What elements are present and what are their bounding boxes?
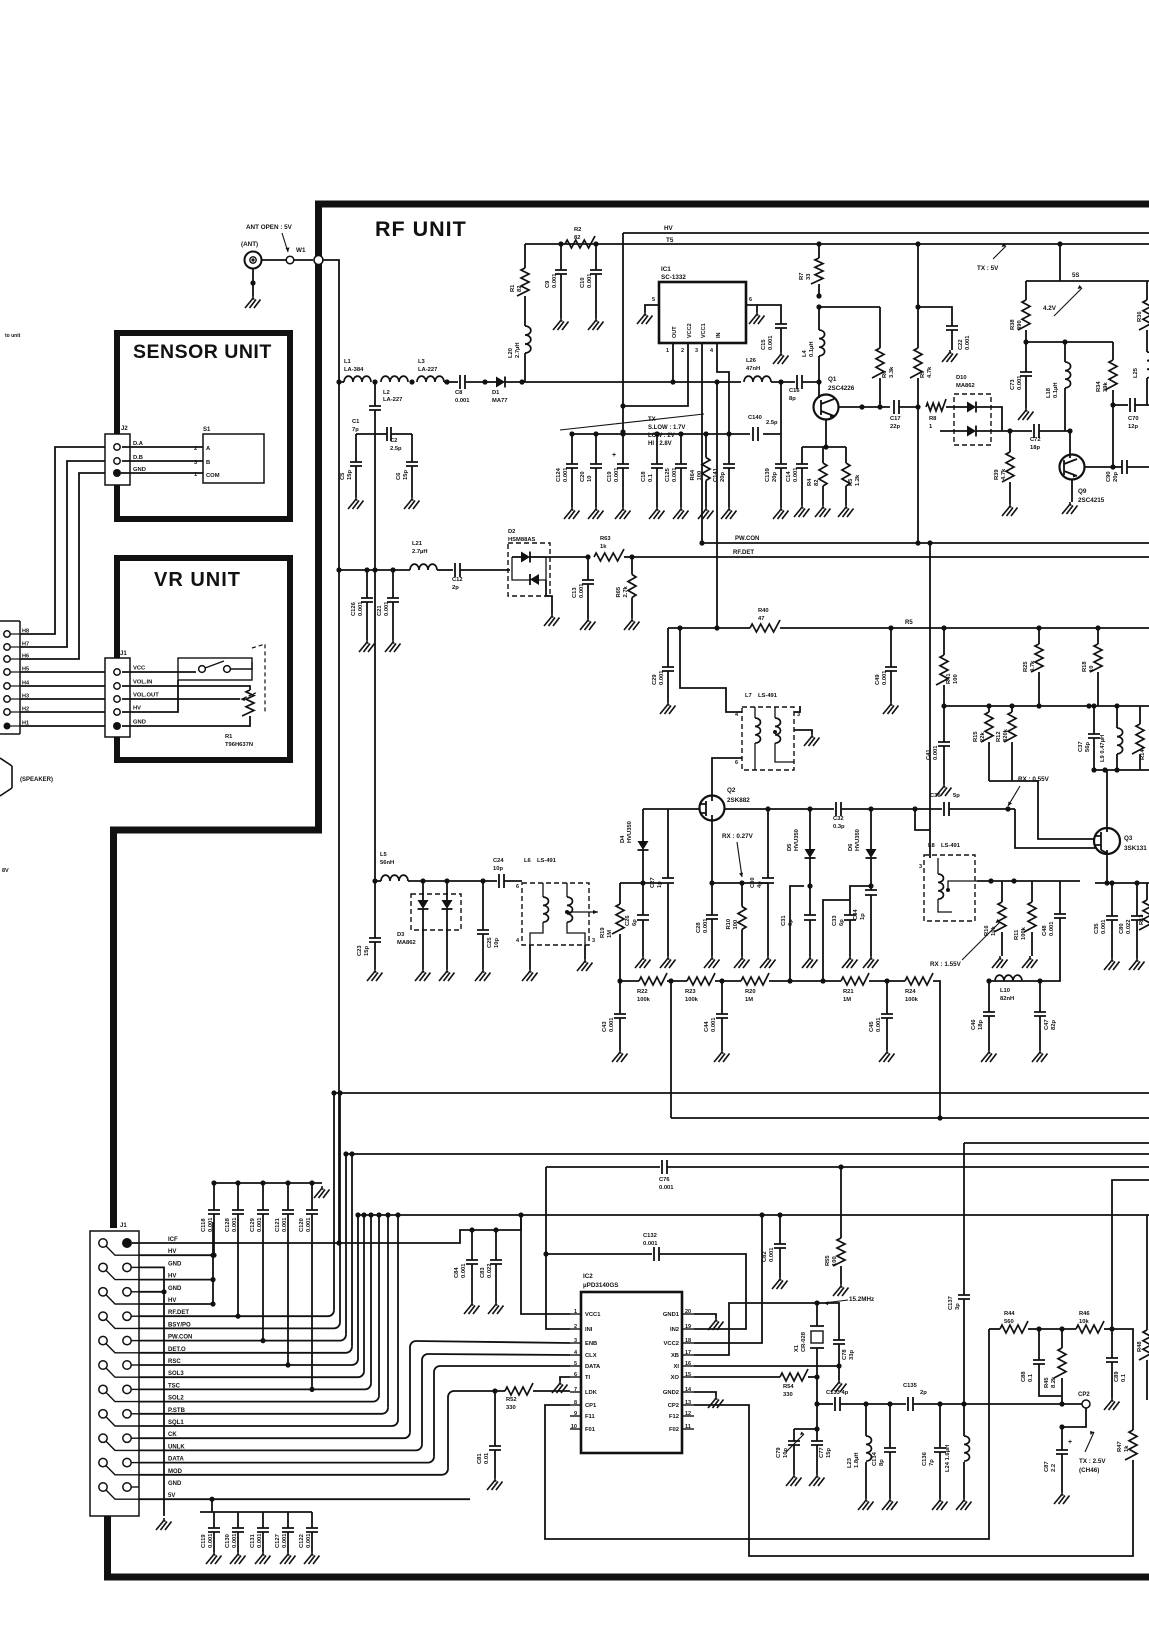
L6 secondary coil	[567, 897, 572, 922]
svg-text:C73: C73	[1010, 379, 1016, 390]
resistor R14 3.3k	[1139, 706, 1141, 724]
svg-text:IC1: IC1	[661, 266, 671, 273]
svg-text:C18: C18	[641, 471, 647, 482]
switch to HV wire	[122, 680, 178, 712]
resistor R12 820k	[1011, 706, 1013, 712]
svg-text:10p: 10p	[783, 1448, 789, 1458]
diode D4 HVU350	[642, 809, 644, 841]
wire PW.CON rail	[702, 542, 1149, 544]
svg-text:2: 2	[681, 348, 684, 354]
svg-text:2SK882: 2SK882	[727, 797, 750, 804]
wire J2.GND to S1.COM	[121, 472, 203, 474]
svg-text:0.001: 0.001	[257, 1217, 263, 1232]
ground under ANT	[252, 268, 254, 296]
capacitor C84 stub	[471, 1230, 473, 1260]
svg-text:C127: C127	[275, 1534, 281, 1548]
wire H4 to VR J1 VOL.IN	[20, 685, 105, 687]
resistor R47 1k	[1125, 1430, 1137, 1460]
svg-text:C49: C49	[875, 674, 881, 685]
power switch box in VR unit	[178, 658, 252, 680]
resistor R48 partial at edge	[1146, 1215, 1148, 1330]
svg-text:R18: R18	[1082, 661, 1088, 672]
wire gap row	[790, 980, 823, 982]
resistor R19 1M	[619, 883, 621, 904]
D10 upper diode	[967, 402, 976, 413]
svg-text:3: 3	[695, 348, 698, 354]
J1 left pin	[99, 1312, 107, 1320]
resistor R20 1M	[741, 973, 769, 985]
capacitor C132 0.001 (series)	[654, 1247, 659, 1261]
wire Q1 emitter bus	[802, 446, 846, 448]
svg-text:6p: 6p	[632, 919, 638, 926]
wire R38 bottom row	[1026, 341, 1113, 343]
capacitor C46 stub	[988, 981, 990, 1012]
wire CK riser to IC2 ENB	[416, 1341, 570, 1343]
svg-text:0.01: 0.01	[484, 1452, 490, 1464]
inductor L9 0.47uH	[1116, 706, 1118, 728]
svg-text:C6: C6	[396, 472, 402, 480]
svg-text:C32: C32	[833, 816, 844, 822]
svg-text:6p: 6p	[788, 919, 794, 926]
wire HV feed drop x=623	[622, 233, 624, 432]
svg-text:0.001: 0.001	[232, 1217, 238, 1232]
capacitor C5 15p	[356, 433, 375, 435]
svg-text:C22: C22	[958, 339, 964, 350]
svg-text:1p: 1p	[860, 913, 866, 920]
CP2 stem	[1062, 1408, 1086, 1427]
svg-text:C25: C25	[487, 937, 493, 948]
svg-text:0.001: 0.001	[643, 1241, 658, 1247]
capacitor C134 stub	[889, 1404, 891, 1448]
capacitor C8 0.001	[460, 375, 465, 389]
svg-text:(SPEAKER): (SPEAKER)	[20, 777, 53, 783]
resistor R46 10k	[1076, 1321, 1104, 1333]
capacitor C121 0.001	[285, 1180, 290, 1185]
svg-text:0.001: 0.001	[461, 1263, 467, 1278]
svg-text:CLX: CLX	[585, 1353, 597, 1359]
svg-text:MA77: MA77	[492, 398, 507, 404]
connector J2 box	[105, 434, 130, 485]
wire Q3 source row	[1095, 882, 1149, 884]
svg-text:22p: 22p	[890, 424, 900, 430]
Q3 drain up	[1106, 770, 1108, 828]
wire cap bus below J1	[200, 1511, 312, 1513]
svg-text:0.001: 0.001	[232, 1533, 238, 1548]
D2 ground stub	[546, 580, 552, 614]
svg-text:X1: X1	[794, 1344, 800, 1352]
wire R15/R12 bottom row to Q3 gate1	[989, 780, 1012, 782]
svg-text:VCC2: VCC2	[664, 1341, 679, 1347]
capacitor C20 stub	[595, 434, 597, 464]
svg-text:D3: D3	[397, 932, 405, 938]
svg-text:2.2: 2.2	[1051, 1464, 1057, 1472]
diode block D2 HSM88AS dashed box	[508, 543, 550, 596]
svg-text:C17: C17	[890, 416, 901, 422]
svg-text:C19: C19	[607, 471, 613, 482]
capacitor C139 20p	[780, 382, 782, 434]
J1 pin ICF (filled)	[122, 1238, 132, 1248]
svg-text:RX : 1.55V: RX : 1.55V	[930, 961, 962, 968]
svg-text:0.001: 0.001	[1017, 375, 1023, 390]
svg-text:L9 0.47µH: L9 0.47µH	[1100, 735, 1106, 762]
svg-text:L26: L26	[746, 358, 757, 364]
Q9 emitter to ground	[1071, 479, 1073, 502]
wire J2.DA to S1.A	[122, 446, 203, 448]
partial L25 at right edge	[1146, 330, 1148, 352]
svg-text:INI: INI	[585, 1327, 593, 1333]
svg-text:C47: C47	[1044, 1019, 1050, 1030]
capacitor C44 stub	[721, 981, 723, 1014]
J1 left pin	[99, 1483, 107, 1491]
svg-text:C1: C1	[352, 419, 360, 425]
svg-text:C21: C21	[377, 605, 383, 616]
wire L7 pin6 to Q2 drain	[712, 758, 742, 796]
capacitor C137 3p	[963, 1143, 965, 1295]
svg-text:R45: R45	[1044, 1377, 1050, 1388]
resistor R2 82	[565, 236, 595, 248]
wire DET.O row	[139, 1352, 346, 1354]
capacitor C23 stub	[374, 881, 376, 938]
svg-text:2SC4215: 2SC4215	[1078, 497, 1105, 504]
svg-text:XB: XB	[671, 1353, 679, 1359]
svg-text:HVU350: HVU350	[627, 821, 633, 843]
J1 right pin	[123, 1263, 131, 1271]
svg-text:C70: C70	[1128, 416, 1139, 422]
wire RF.DET row	[139, 1315, 328, 1317]
svg-text:R24: R24	[905, 989, 916, 995]
svg-text:3SK131: 3SK131	[1124, 845, 1147, 852]
svg-text:W1: W1	[296, 247, 306, 254]
svg-text:47: 47	[758, 616, 764, 622]
svg-text:C43: C43	[602, 1021, 608, 1032]
svg-text:C16: C16	[789, 388, 800, 394]
J2 pin D.A	[114, 444, 120, 450]
potentiometer R1	[122, 686, 250, 690]
leader line to IC1 pin3	[560, 414, 704, 430]
wire J2.DB to S1.B	[122, 460, 203, 462]
wire antenna filter row	[339, 381, 344, 383]
svg-text:0.001: 0.001	[1101, 919, 1107, 934]
connector W1	[286, 256, 294, 264]
svg-text:82nH: 82nH	[1000, 996, 1014, 1002]
capacitor C28 stub	[711, 883, 713, 915]
capacitor C77 15p	[816, 1429, 818, 1441]
svg-text:L2: L2	[383, 390, 390, 396]
capacitor C1 7p	[374, 382, 376, 406]
svg-text:Q2: Q2	[727, 787, 736, 794]
wire 5V row	[139, 1498, 470, 1500]
J1 left pin	[99, 1361, 107, 1369]
svg-text:0.1: 0.1	[1121, 1373, 1127, 1382]
svg-text:F11: F11	[585, 1414, 595, 1420]
svg-text:TI: TI	[585, 1375, 591, 1381]
IC2 XI wire to C78	[694, 1365, 839, 1367]
inductor L20 2.7uH	[524, 296, 526, 326]
svg-text:L6: L6	[524, 858, 532, 864]
svg-text:0.001: 0.001	[614, 467, 620, 482]
svg-text:R48: R48	[1137, 1341, 1143, 1352]
svg-text:R11: R11	[1014, 929, 1020, 940]
Q2 source down	[711, 820, 713, 883]
svg-text:47nH: 47nH	[746, 366, 760, 372]
svg-text:C8: C8	[455, 390, 463, 396]
svg-text:CP2: CP2	[668, 1403, 679, 1409]
capacitor C82 0.001	[777, 1212, 782, 1217]
J1 right pin	[123, 1312, 131, 1320]
svg-text:100k: 100k	[1021, 926, 1027, 940]
switch S1 box	[203, 434, 264, 483]
svg-text:0.001: 0.001	[563, 467, 569, 482]
svg-text:R2: R2	[574, 227, 581, 233]
svg-text:R23: R23	[685, 989, 696, 995]
svg-text:6: 6	[516, 884, 519, 890]
svg-text:HVU350: HVU350	[855, 829, 861, 851]
svg-text:6p: 6p	[839, 919, 845, 926]
J1 pin VCC	[114, 669, 120, 675]
J1 right pin	[123, 1458, 131, 1466]
svg-text:0.001: 0.001	[282, 1217, 288, 1232]
svg-text:2.7µH: 2.7µH	[515, 342, 521, 358]
antenna connector J (ANT)	[245, 252, 262, 269]
Q1 collector wire right	[838, 406, 890, 408]
capacitor C17 22p	[894, 400, 899, 414]
L6 primary coil	[543, 897, 548, 922]
resistor R18 10	[1097, 628, 1099, 644]
J1 right pin	[123, 1385, 131, 1393]
svg-text:R47: R47	[1117, 1441, 1123, 1452]
svg-text:330: 330	[506, 1405, 516, 1411]
J1 right pin	[123, 1336, 131, 1344]
svg-text:C10: C10	[580, 277, 586, 288]
capacitor C125 stub	[680, 434, 682, 464]
svg-text:C26: C26	[625, 915, 631, 926]
pin H2	[4, 709, 10, 715]
svg-text:0.1: 0.1	[1028, 1373, 1034, 1382]
inductor L3 LA-227	[417, 376, 444, 382]
svg-text:C72: C72	[1030, 437, 1041, 443]
IC IC1 SC-1332 box	[659, 282, 746, 343]
svg-text:33p: 33p	[849, 1350, 855, 1360]
svg-text:15p: 15p	[347, 470, 353, 480]
capacitor C49 stub	[890, 628, 892, 667]
wire Q2 drain row	[724, 808, 834, 810]
wire H2 to VR J1 HV	[20, 711, 105, 713]
resistor R1 82	[524, 244, 526, 268]
svg-text:C29: C29	[652, 674, 658, 685]
J2 pin D.B	[114, 458, 120, 464]
svg-text:C89: C89	[1114, 1371, 1120, 1382]
svg-text:C76: C76	[659, 1177, 670, 1183]
capacitor C79 10p trimmer	[793, 1429, 795, 1441]
svg-text:0.1µH: 0.1µH	[809, 341, 815, 357]
wire crystal bottom to C79/C77 row	[816, 1377, 818, 1429]
svg-text:F01: F01	[585, 1427, 596, 1433]
mech link dashed	[252, 644, 265, 712]
svg-text:5S: 5S	[1072, 273, 1079, 279]
svg-text:82: 82	[517, 286, 523, 292]
svg-text:C129: C129	[250, 1217, 256, 1232]
svg-text:10: 10	[1089, 666, 1095, 672]
svg-text:R15: R15	[973, 731, 979, 742]
svg-text:C122: C122	[299, 1534, 305, 1548]
wire C84/C83 bus	[339, 1215, 521, 1243]
resistor R4 stub	[822, 447, 824, 463]
svg-text:J1: J1	[120, 1223, 127, 1229]
svg-text:D4: D4	[620, 835, 626, 843]
svg-text:RX : 0.55V: RX : 0.55V	[1018, 776, 1050, 783]
svg-text:0.1: 0.1	[648, 473, 654, 482]
inductor L26 47nH	[744, 376, 771, 382]
svg-text:CP2: CP2	[1078, 1392, 1090, 1398]
svg-text:R41: R41	[946, 673, 952, 684]
D2 upper diode	[521, 552, 530, 563]
wire L8 out row	[977, 880, 1080, 882]
resistor R10 100	[739, 880, 744, 885]
svg-text:820k: 820k	[1003, 728, 1009, 742]
svg-text:0.001: 0.001	[793, 467, 799, 482]
svg-text:2p: 2p	[920, 1390, 927, 1396]
svg-text:C41: C41	[926, 749, 932, 760]
svg-text:C87: C87	[1044, 1461, 1050, 1472]
J1 left pin	[99, 1336, 107, 1344]
resistor R55 100	[840, 1167, 842, 1238]
svg-text:R36: R36	[1137, 311, 1143, 322]
svg-text:L5: L5	[380, 852, 388, 858]
svg-text:R6: R6	[882, 370, 888, 378]
wire P.STB row	[139, 1413, 382, 1415]
capacitor C25 stub	[482, 881, 484, 930]
capacitor C31 6p	[804, 915, 816, 920]
capacitor C72 18p	[1010, 430, 1032, 432]
svg-text:R1: R1	[225, 734, 233, 740]
svg-text:330: 330	[783, 1392, 793, 1398]
resistor R13 partial at edge	[1146, 883, 1148, 900]
wire R20 up to D5 node	[790, 886, 804, 981]
wire R21 up to C33 node	[823, 900, 850, 981]
svg-text:D2: D2	[508, 529, 515, 535]
svg-text:C36: C36	[930, 793, 941, 799]
svg-text:R8: R8	[929, 416, 937, 422]
pin H1	[4, 723, 11, 730]
svg-text:F12: F12	[669, 1414, 679, 1420]
resistor R24 100k	[905, 973, 933, 985]
wire L8 feed stub	[915, 809, 930, 830]
svg-text:GND: GND	[168, 1481, 182, 1487]
svg-text:15p: 15p	[826, 1448, 832, 1458]
svg-text:L7: L7	[745, 693, 752, 699]
svg-text:L24 1.6µH: L24 1.6µH	[945, 1445, 951, 1472]
svg-text:C119: C119	[201, 1534, 207, 1548]
wire J2.DB to H7	[20, 461, 105, 647]
capacitor C19 stub	[622, 434, 624, 464]
capacitor C13 stub	[587, 557, 589, 580]
svg-text:S.LOW : 1.7V: S.LOW : 1.7V	[648, 425, 685, 431]
capacitor C43 stub	[619, 981, 621, 1014]
svg-text:C90: C90	[1106, 471, 1112, 482]
svg-text:0.001: 0.001	[768, 335, 774, 350]
svg-text:56nH: 56nH	[380, 860, 394, 866]
capacitor C45 stub	[886, 981, 888, 1014]
diode block D3 MA862 dashed box	[411, 894, 461, 930]
svg-text:20p: 20p	[772, 472, 778, 482]
pin H4	[4, 683, 10, 689]
svg-text:L4: L4	[802, 349, 808, 357]
svg-text:C135: C135	[903, 1383, 918, 1389]
svg-text:B: B	[206, 460, 210, 466]
J1 left pin	[99, 1263, 107, 1271]
wire INI riser x=546	[546, 1167, 570, 1329]
IC1 pin 6 to ground	[746, 305, 757, 312]
capacitor C33 6p	[850, 886, 871, 915]
svg-text:MA862: MA862	[397, 940, 416, 946]
J1 left pin	[99, 1410, 107, 1418]
resistor R21 1M	[841, 973, 869, 985]
capacitor C118 0.001	[211, 1180, 216, 1185]
wire ANT to W1	[262, 259, 313, 261]
svg-text:C2: C2	[390, 438, 397, 444]
wire 5S rail	[1026, 280, 1149, 282]
svg-text:2.5p: 2.5p	[390, 446, 402, 452]
capacitor C122 0.001	[311, 1512, 313, 1528]
svg-text:TX : 5V: TX : 5V	[977, 265, 999, 272]
svg-text:C80: C80	[1119, 923, 1125, 934]
wire D4 node row	[620, 882, 662, 884]
svg-text:D1: D1	[492, 390, 500, 396]
diode block D10 MA862 dashed box	[954, 394, 991, 445]
wire H5 to VR J1 VCC	[20, 671, 105, 673]
svg-text:PW.CON: PW.CON	[735, 536, 759, 542]
capacitor C34 1p	[865, 890, 877, 895]
capacitor C76 0.001 (series)	[662, 1160, 667, 1174]
capacitor C70 12p	[1113, 404, 1128, 406]
J1 pin GND	[113, 722, 121, 730]
svg-text:R20: R20	[745, 989, 756, 995]
capacitor C27 1p	[667, 809, 669, 878]
svg-text:GND2: GND2	[663, 1390, 679, 1396]
inductor L24 1.6uH	[963, 1404, 965, 1436]
L7 secondary to ground	[794, 730, 812, 734]
svg-text:C48: C48	[1042, 925, 1048, 936]
svg-text:HI : 2.8V: HI : 2.8V	[648, 441, 672, 447]
svg-text:15p: 15p	[403, 470, 409, 480]
svg-text:VOL.IN: VOL.IN	[133, 680, 152, 686]
svg-text:1p: 1p	[657, 881, 663, 888]
test point CP2	[1082, 1400, 1090, 1408]
resistor R44 560	[1000, 1321, 1028, 1333]
wire R44-R46 node	[1039, 1328, 1076, 1330]
svg-text:VCC1: VCC1	[701, 323, 707, 338]
diode D5 HVU350	[809, 809, 811, 849]
svg-text:+: +	[612, 452, 616, 459]
inductor L21 2.7uH	[410, 564, 437, 570]
svg-text:10k: 10k	[1079, 1319, 1089, 1325]
svg-text:C84: C84	[454, 1267, 460, 1278]
wire ICF row to antenna vertical	[132, 1242, 339, 1244]
wire H3 to VR J1 VOL.OUT	[20, 698, 105, 700]
wire CI33 row	[814, 1401, 819, 1406]
resistor R15 22k	[988, 706, 990, 712]
wire J2.GND to H6	[20, 473, 105, 659]
resistor R63 1k	[594, 549, 624, 561]
resistor R5 stub	[845, 447, 847, 463]
wire R7 node branch	[816, 304, 821, 309]
svg-text:8p: 8p	[789, 396, 796, 402]
svg-text:RX : 0.27V: RX : 0.27V	[722, 833, 754, 840]
svg-text:L23: L23	[847, 1457, 853, 1468]
partial R36 at right edge	[1139, 300, 1149, 330]
svg-text:C139: C139	[765, 467, 771, 482]
svg-text:0.001: 0.001	[208, 1217, 214, 1232]
